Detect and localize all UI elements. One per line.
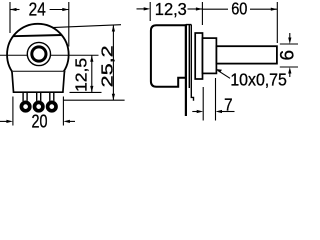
svg-text:25,2: 25,2: [99, 45, 116, 87]
pin 1 pad: [20, 101, 32, 113]
dimension 6 upper outside arrow: [289, 33, 291, 39]
dimension 60 line left with arrow: [202, 8, 228, 10]
dimension 12,3 left outside arrow: [137, 8, 145, 10]
dimension 12,5 line with arrows: [91, 55, 93, 92]
dimension 24 extension line left: [9, 2, 11, 33]
base bottom extension line right: [70, 91, 102, 93]
front view body circle: [7, 24, 69, 86]
dimension 25,2 top reference line: [52, 25, 121, 28]
bracket plate top edge: [186, 24, 192, 26]
dimension 20 left outside arrow: [0, 120, 7, 122]
collar: [195, 33, 202, 79]
dimension 20 extension line right: [62, 97, 64, 126]
dimension 25,2 line with arrows: [112, 25, 114, 100]
shaft: [216, 46, 277, 63]
base top chord line: [11, 71, 65, 73]
dimension 6 extension line top: [280, 43, 298, 45]
dimension 7 extension line right: [215, 78, 217, 121]
bracket plate right edge with step: [191, 25, 193, 101]
svg-text:12,5: 12,5: [73, 58, 90, 92]
svg-text:24: 24: [29, 0, 46, 19]
bushing inner ring: [32, 47, 46, 61]
bushing outer circle: [27, 42, 50, 65]
svg-text:6: 6: [278, 50, 299, 61]
side body right edge and bracket leg: [185, 24, 187, 116]
pin 3 pad: [46, 101, 58, 113]
dimension 24 line left with arrow: [10, 9, 20, 11]
svg-text:60: 60: [231, 0, 247, 19]
dimension 7 left outside arrow: [192, 111, 198, 113]
dimension 24 line right with arrow: [50, 9, 69, 11]
bracket plate left edge: [188, 25, 190, 88]
seam chord line on body: [13, 35, 62, 36]
dimension 20 extension line left: [12, 97, 14, 126]
dimension 6 extension line bottom: [280, 66, 298, 68]
dimension 60 line right with arrow: [250, 8, 277, 10]
svg-text:20: 20: [32, 112, 48, 130]
shared extension line 12,3 / 60: [201, 2, 203, 25]
centerline through shaft axis: [0, 54, 99, 56]
thread leader line 10x0,75: [218, 70, 231, 78]
threaded bushing: [203, 38, 217, 73]
base rectangle sides and bottom: [12, 72, 64, 92]
svg-text:7: 7: [224, 94, 233, 114]
pin 2 neck: [37, 92, 41, 101]
svg-text:12,3: 12,3: [155, 0, 187, 19]
dimension 20 right outside arrow: [69, 120, 75, 122]
svg-text:10x0,75: 10x0,75: [230, 69, 287, 89]
dimension 6 lower outside arrow: [289, 73, 291, 78]
pin 1 neck: [23, 92, 27, 101]
dimension 12,3 line right segment with arrow: [188, 8, 203, 10]
pad top reference line B: [63, 99, 124, 101]
pin 2 pad: [33, 101, 45, 113]
side view body with notch: [151, 25, 186, 87]
pin 3 neck: [50, 92, 54, 101]
dimension 24 extension line right: [68, 2, 70, 47]
dimension 60 extension line right: [276, 2, 278, 43]
mask over circle bottom: [14, 72, 63, 90]
dimension 7 right outside arrow: [221, 111, 235, 113]
dimension 7 extension line left: [202, 87, 204, 121]
dimension 12,3 extension line left: [149, 2, 151, 21]
